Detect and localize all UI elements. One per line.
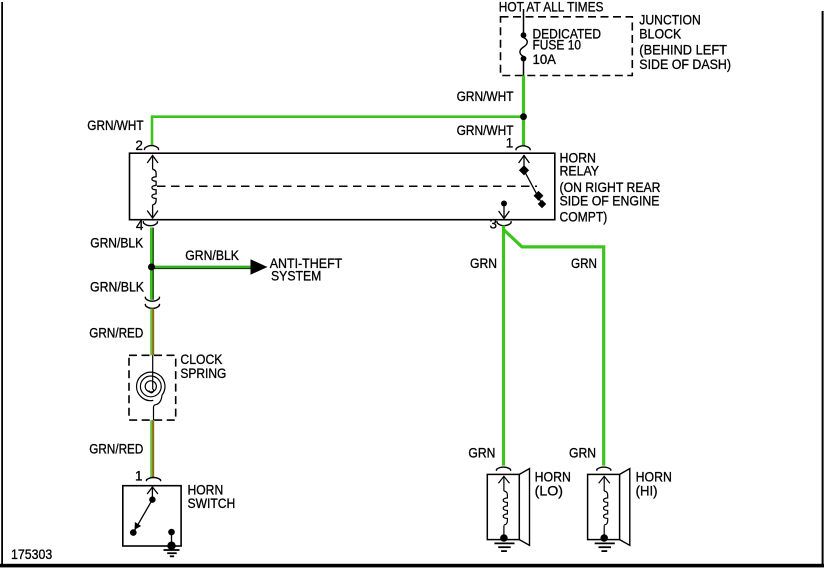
svg-text:GRN/BLK: GRN/BLK — [185, 248, 239, 263]
node junction dot GRN/WHT — [520, 113, 527, 120]
junction block dashed box — [501, 17, 633, 76]
svg-text:SYSTEM: SYSTEM — [271, 269, 321, 284]
wire GRN pin3 down to horn LO — [502, 226, 505, 466]
inline connector (wire break) lower cup — [145, 304, 159, 309]
svg-text:2: 2 — [135, 138, 143, 153]
svg-text:SWITCH: SWITCH — [188, 496, 236, 511]
clock spring spiral — [137, 355, 165, 420]
wire GRN/WHT from fuse down to junction dot — [522, 76, 525, 115]
ground at horn switch — [164, 550, 180, 556]
horn HI speaker flare — [620, 469, 630, 546]
svg-text:(HI): (HI) — [636, 484, 658, 499]
fuse F dedicated fuse 10 — [520, 32, 527, 75]
relay label HORN RELAY — [560, 150, 661, 224]
horn HI connector arc — [597, 467, 611, 471]
svg-text:3: 3 — [490, 217, 498, 232]
svg-text:CLOCK: CLOCK — [180, 352, 222, 367]
svg-text:GRN/WHT: GRN/WHT — [457, 89, 514, 104]
svg-text:JUNCTION: JUNCTION — [639, 12, 701, 27]
svg-text:COMPT): COMPT) — [560, 210, 608, 225]
svg-text:BLOCK: BLOCK — [639, 26, 681, 41]
ground at horn HI — [595, 543, 615, 551]
svg-text:RELAY: RELAY — [560, 163, 600, 178]
switch fixed contact to ground — [168, 529, 175, 536]
svg-text:GRN: GRN — [569, 446, 596, 461]
svg-text:175303: 175303 — [11, 547, 52, 562]
horn switch internals — [130, 487, 176, 550]
junction block label — [639, 12, 731, 72]
relay switch blade — [524, 170, 542, 204]
svg-text:GRN: GRN — [571, 256, 597, 271]
relay coil between pins 2 and 4 — [147, 155, 158, 218]
switch S1 horn switch box — [123, 486, 181, 546]
clock spring dashed box — [129, 355, 176, 420]
wire GRN/BLK pin4 to junction — [151, 228, 153, 267]
horn LO connector arc — [496, 467, 510, 471]
horn switch connector arc — [146, 478, 160, 482]
svg-text:GRN: GRN — [468, 446, 495, 461]
svg-text:GRN/BLK: GRN/BLK — [90, 280, 144, 295]
svg-text:GRN/RED: GRN/RED — [89, 441, 143, 456]
horn HI label — [636, 470, 672, 499]
relay pin 3 contact — [499, 201, 510, 219]
svg-text:HOT AT ALL TIMES: HOT AT ALL TIMES — [499, 0, 604, 14]
svg-text:GRN/RED: GRN/RED — [89, 326, 143, 341]
arrow to anti-theft system — [251, 259, 268, 274]
wire GRN/WHT from dot down to relay pin 1 — [522, 120, 525, 146]
wire GRN/RED connector to clock spring — [151, 309, 153, 356]
svg-text:SIDE OF ENGINE: SIDE OF ENGINE — [560, 194, 660, 209]
wire GRN/BLK junction down to inline connector — [151, 268, 153, 300]
pin 1 connector arc — [516, 146, 530, 151]
svg-text:GRN: GRN — [470, 256, 497, 271]
ground at horn LO — [494, 543, 514, 551]
relay U horn relay box — [130, 153, 555, 220]
svg-text:GRN/WHT: GRN/WHT — [87, 118, 143, 133]
svg-text:HORN: HORN — [535, 470, 571, 485]
wire from HOT feed into fuse — [523, 9, 525, 33]
svg-text:FUSE 10: FUSE 10 — [533, 37, 582, 52]
horn LO ground dot — [500, 534, 508, 542]
pin 3 connector cup — [497, 221, 511, 226]
svg-text:(LO): (LO) — [535, 484, 563, 499]
relay internal dashed centerline — [157, 185, 537, 187]
svg-text:4: 4 — [136, 218, 144, 233]
svg-text:1: 1 — [135, 468, 143, 483]
pin 4 connector cup — [143, 221, 157, 226]
horn HI ground dot — [600, 534, 608, 542]
wire GRN branch to horn HI — [504, 230, 604, 466]
label ANTI-THEFT SYSTEM — [270, 256, 343, 284]
horn LO coil — [498, 476, 509, 536]
switch blade — [133, 500, 152, 533]
border frame — [1, 2, 3, 567]
wire GRN/WHT horizontal to pin 2 — [152, 117, 524, 146]
clock spring label — [180, 352, 226, 381]
horn LO label — [535, 470, 571, 499]
node junction dot to anti-theft — [148, 264, 155, 271]
svg-text:SPRING: SPRING — [180, 366, 226, 381]
inline connector (wire break) upper cup — [145, 297, 159, 302]
fuse value label — [533, 26, 602, 67]
horn HI coil — [599, 476, 610, 536]
horn switch label — [188, 483, 236, 511]
wire GRN/BLK horizontal to anti-theft — [154, 266, 251, 269]
horn LO box — [487, 474, 519, 539]
relay switch pin 1 arm — [519, 155, 547, 208]
svg-text:GRN/BLK: GRN/BLK — [90, 236, 143, 251]
svg-text:10A: 10A — [533, 52, 557, 67]
svg-text:1: 1 — [506, 136, 514, 151]
pin 2 connector arc — [144, 146, 158, 151]
horn HI box — [588, 474, 620, 539]
wire GRN/RED clock spring to horn switch — [151, 420, 153, 478]
svg-text:(BEHIND LEFT: (BEHIND LEFT — [639, 42, 727, 57]
svg-text:HORN: HORN — [636, 470, 672, 485]
svg-text:SIDE OF DASH): SIDE OF DASH) — [639, 57, 731, 72]
horn LO speaker flare — [519, 469, 529, 546]
